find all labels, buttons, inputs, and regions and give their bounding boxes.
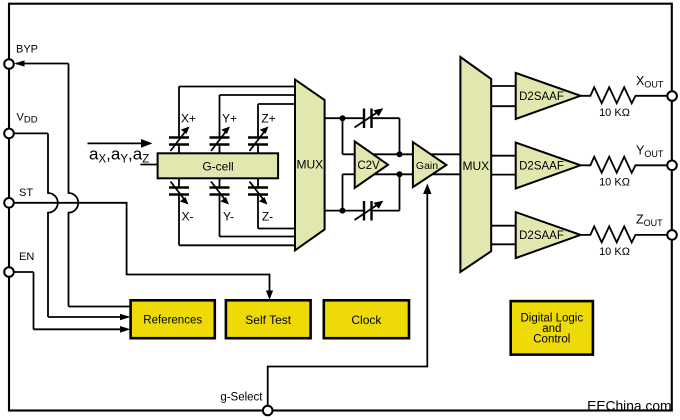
pin YOUT bbox=[636, 144, 677, 171]
op-amp U3 Gain bbox=[413, 142, 447, 187]
wire Z+ top bus bbox=[258, 104, 295, 137]
capacitor X- (variable) bbox=[169, 178, 194, 223]
pin VDD bbox=[4, 112, 38, 139]
resistor R1 10 KΩ bbox=[581, 87, 668, 119]
svg-text:C2V: C2V bbox=[357, 160, 380, 172]
pin ST bbox=[4, 187, 33, 208]
svg-text:Y+: Y+ bbox=[222, 112, 237, 126]
wire Y+ top bus bbox=[220, 95, 296, 137]
junction dot C2V lower output bbox=[397, 171, 403, 177]
resistor R2 10 KΩ bbox=[581, 157, 668, 189]
block Clock bbox=[324, 300, 409, 338]
mux U4 MUX (right) bbox=[460, 57, 491, 272]
junction dot lower MUX output bbox=[340, 208, 346, 214]
wire Gain outputs to MUX2 bbox=[428, 154, 460, 174]
wire MUX upper output net bbox=[325, 118, 400, 154]
wire VDD net (hops over ST wire) bbox=[14, 133, 131, 320]
wire input to G-cell bbox=[140, 164, 157, 166]
wire BYP net (hops over ST wire) bbox=[14, 60, 131, 306]
svg-text:EEChina.com: EEChina.com bbox=[587, 399, 671, 414]
svg-text:Z-: Z- bbox=[262, 210, 273, 224]
svg-text:EN: EN bbox=[19, 251, 34, 263]
node input signal arrow aX,aY,aZ bbox=[88, 139, 153, 166]
block G-cell bbox=[158, 153, 279, 178]
svg-text:References: References bbox=[143, 315, 202, 327]
svg-text:Control: Control bbox=[533, 334, 570, 346]
svg-text:G-cell: G-cell bbox=[202, 160, 233, 174]
wire ST net bbox=[14, 203, 274, 300]
wire MUX2 to D2SAAF Y (pair) bbox=[492, 156, 516, 175]
pin XOUT bbox=[636, 74, 677, 101]
svg-text:g-Select: g-Select bbox=[220, 392, 263, 404]
svg-text:10 KΩ: 10 KΩ bbox=[599, 177, 630, 189]
junction dot C2V upper output bbox=[397, 151, 403, 157]
wire MUX lower output net bbox=[325, 174, 400, 210]
wire Z- bottom bus bbox=[258, 195, 295, 229]
mux U1 MUX (left) bbox=[295, 80, 325, 251]
svg-text:X-: X- bbox=[182, 210, 194, 224]
svg-text:X+: X+ bbox=[181, 112, 196, 126]
svg-text:MUX: MUX bbox=[462, 159, 489, 173]
wire C2V outputs to Gain bbox=[370, 154, 413, 174]
junction dot upper MUX output bbox=[340, 115, 346, 121]
wire MUX2 to D2SAAF X (pair) bbox=[492, 86, 516, 106]
pin g-Select bbox=[220, 392, 272, 416]
capacitor C2 feedback (variable) bbox=[355, 201, 384, 221]
capacitor X+ (variable) bbox=[169, 112, 196, 154]
wire MUX2 to D2SAAF Z (pair) bbox=[492, 226, 516, 245]
svg-text:Clock: Clock bbox=[351, 313, 382, 327]
pin EN bbox=[4, 251, 34, 277]
wire X- bottom bus bbox=[179, 195, 295, 245]
svg-text:MUX: MUX bbox=[296, 158, 323, 172]
capacitor Z+ (variable) bbox=[248, 112, 276, 154]
op-amp U5 D2SAAF X bbox=[516, 73, 581, 119]
block Self Test bbox=[226, 300, 311, 338]
svg-text:BYP: BYP bbox=[16, 44, 38, 56]
wire g-Select net bbox=[268, 184, 432, 406]
svg-text:ST: ST bbox=[19, 187, 33, 199]
svg-text:10 KΩ: 10 KΩ bbox=[599, 246, 630, 258]
svg-text:D2SAAF: D2SAAF bbox=[519, 91, 564, 103]
pin ZOUT bbox=[636, 213, 677, 240]
block References bbox=[131, 300, 215, 338]
svg-text:VDD: VDD bbox=[17, 112, 38, 126]
svg-text:Y-: Y- bbox=[223, 210, 234, 224]
resistor R3 10 KΩ bbox=[581, 226, 668, 258]
svg-text:aX,aY,aZ: aX,aY,aZ bbox=[89, 145, 149, 166]
capacitor Y- (variable) bbox=[210, 178, 234, 223]
block Digital Logic and Control bbox=[511, 301, 593, 355]
svg-text:D2SAAF: D2SAAF bbox=[519, 161, 564, 173]
svg-text:Z+: Z+ bbox=[261, 112, 275, 126]
wire Y- bottom bus bbox=[220, 195, 296, 237]
pin BYP bbox=[4, 44, 38, 69]
capacitor Z- (variable) bbox=[248, 178, 273, 223]
op-amp U7 D2SAAF Z bbox=[516, 212, 581, 258]
capacitor Y+ (variable) bbox=[210, 112, 238, 154]
op-amp U2 C2V bbox=[355, 141, 388, 188]
svg-text:Self Test: Self Test bbox=[245, 313, 291, 327]
capacitor C1 feedback (variable) bbox=[355, 108, 384, 128]
wire EN net bbox=[14, 272, 131, 333]
wire X+ top bus bbox=[179, 87, 295, 138]
svg-text:10 KΩ: 10 KΩ bbox=[599, 107, 630, 119]
op-amp U6 D2SAAF Y bbox=[516, 143, 581, 189]
svg-text:Gain: Gain bbox=[416, 160, 438, 172]
svg-text:D2SAAF: D2SAAF bbox=[519, 230, 564, 242]
